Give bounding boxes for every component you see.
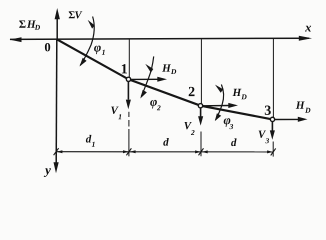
- funicular chain 0-1-2-3: [57, 39, 273, 119]
- label phi3: [224, 118, 233, 129]
- label H_D at node 3: [296, 102, 311, 113]
- dimension arrowheads for span d (2-3): [202, 150, 273, 153]
- y-axis label y: [44, 168, 51, 177]
- dimension arrowheads for span d (1-2): [130, 150, 201, 153]
- label H_D at node 1: [162, 64, 176, 74]
- dimension tick at y-axis: [54, 148, 59, 155]
- label d (panel 1-2): [163, 138, 169, 146]
- vertical reference line through node 3: [272, 39, 274, 157]
- node 2 label: [189, 87, 195, 96]
- vertical reference line through node 2: [200, 39, 202, 156]
- angle arc phi1 (at origin): [80, 17, 95, 67]
- force arrow H_D at node 2 (right): [203, 103, 238, 108]
- x-axis: [10, 36, 312, 41]
- force arrow V1 (down at node 1): [126, 82, 131, 110]
- label Sigma H_D (horizontal reactions sum): [19, 21, 40, 30]
- dimension line: [56, 151, 273, 153]
- dimension tick at node 2 line: [199, 148, 204, 155]
- reaction arrow Sigma H_D (pointing left): [10, 37, 22, 42]
- label V2: [184, 122, 194, 135]
- label d (panel 2-3): [231, 138, 237, 146]
- vertical reference line through node 1: [128, 39, 130, 156]
- label d1 (panel length): [86, 135, 95, 147]
- label V3: [259, 131, 269, 144]
- label phi1: [94, 46, 105, 55]
- dimension tick at node 3 line: [271, 148, 276, 155]
- x-axis label x: [305, 26, 311, 32]
- node 3 (hinge circle): [270, 117, 274, 121]
- label phi2: [150, 100, 160, 110]
- dimension arrowheads for span d1: [57, 150, 129, 153]
- origin label 0: [45, 43, 50, 51]
- node 2 (hinge circle): [198, 104, 202, 108]
- y-axis: [54, 39, 59, 173]
- reaction arrow Sigma V (pointing up): [55, 8, 60, 39]
- angle arc phi3 (at node 2): [215, 85, 224, 122]
- node 1 (hinge circle): [126, 77, 130, 81]
- node 1 label: [122, 64, 127, 73]
- dimension tick at node 1 line: [126, 148, 131, 155]
- force arrow H_D at node 1 (right): [131, 77, 167, 82]
- force arrow H_D at node 3 (right): [275, 117, 308, 122]
- label Sigma V (vertical reactions sum): [69, 11, 83, 18]
- label V1: [111, 107, 121, 120]
- label H_D at node 2: [233, 89, 247, 100]
- node 3 label: [265, 106, 271, 115]
- force arrow V2 (down at node 2): [198, 108, 203, 126]
- angle arc phi2 (at node 1): [140, 56, 153, 98]
- force arrow V3 (down at node 3): [270, 122, 275, 140]
